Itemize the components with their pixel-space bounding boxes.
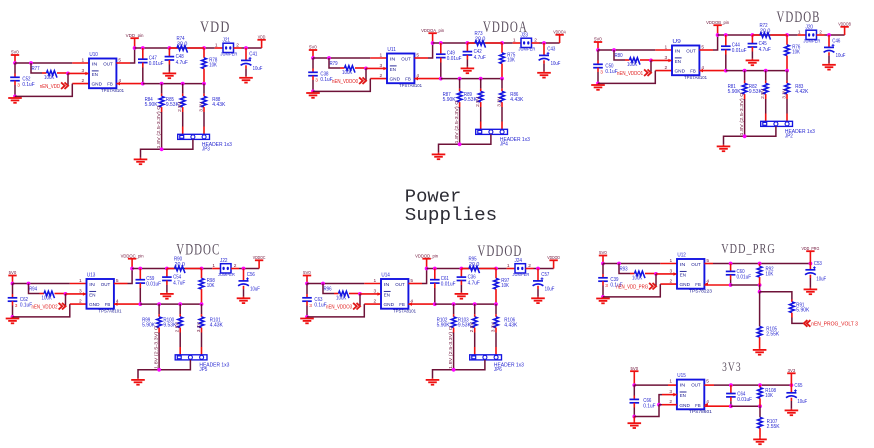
ground	[166, 292, 168, 294]
wire cap lead	[537, 286, 539, 289]
svg-text:3.3V: 3.3V	[497, 96, 502, 107]
wire cap lead	[730, 397, 732, 401]
regulator U13 TPS7A8101	[87, 279, 114, 309]
wire to R81	[744, 71, 746, 81]
wire jumper pin stub	[507, 268, 515, 270]
wire to FB rail	[725, 55, 727, 71]
wire cap lead	[730, 264, 732, 272]
svg-text:20.0: 20.0	[469, 262, 480, 268]
wire resistor lead	[201, 269, 203, 279]
junction	[242, 267, 246, 271]
regulator U10 TPS7A8101	[89, 59, 116, 89]
resistor R95 20.0	[469, 266, 480, 273]
wire to FB rail	[434, 288, 436, 304]
wire header to ground	[138, 360, 190, 378]
ground	[168, 72, 170, 74]
wire to ground	[312, 80, 314, 91]
junction	[458, 77, 462, 81]
wire cap lead	[537, 269, 539, 281]
wire EN pin stub	[68, 72, 89, 74]
resistor R94 100K	[44, 291, 55, 298]
svg-text:4: 4	[706, 399, 709, 405]
jumper J21	[223, 43, 234, 52]
wire jumper pin stub	[526, 268, 534, 270]
svg-text:IN: IN	[680, 383, 686, 389]
wire to ground	[543, 64, 545, 72]
ground	[460, 292, 462, 294]
resistor R77 100K	[47, 71, 58, 78]
ground	[245, 76, 247, 78]
svg-text:4.7uF: 4.7uF	[468, 280, 480, 286]
wire output rail	[433, 42, 513, 44]
wire cap lead	[139, 283, 141, 288]
regulator U11 TPS7A8101	[387, 54, 414, 84]
wire resistor lead	[640, 59, 651, 61]
svg-text:JP5: JP5	[199, 367, 207, 373]
capacitor C49 0.01uF	[436, 53, 446, 55]
off-page connector nEN_VDDO2	[59, 303, 63, 310]
wire resistor lead	[349, 293, 360, 295]
junction	[758, 262, 762, 266]
junction	[141, 46, 145, 50]
junction	[473, 302, 477, 306]
resistor R85 9.53K	[180, 96, 185, 107]
svg-text:OUT: OUT	[103, 61, 113, 67]
wire resistor lead	[158, 328, 160, 333]
wire FB pin stub	[114, 303, 140, 305]
wire header to ground	[433, 360, 485, 378]
wire resistor lead	[185, 268, 202, 270]
svg-text:JUMPER: JUMPER	[803, 38, 821, 43]
svg-text:U9: U9	[672, 39, 681, 45]
svg-text:1: 1	[798, 30, 801, 36]
wire cap lead	[725, 50, 727, 55]
wire cap lead	[602, 274, 604, 278]
svg-text:3: 3	[82, 68, 85, 74]
resistor R107 2.55K	[758, 417, 763, 428]
wire FB pin stub	[116, 83, 142, 85]
wire to output flag	[825, 34, 845, 36]
junction	[244, 46, 248, 50]
junction	[764, 69, 768, 73]
svg-text:5V0: 5V0	[594, 37, 602, 42]
wire EN pin stub	[662, 394, 677, 396]
svg-text:10K: 10K	[507, 58, 515, 64]
junction	[729, 283, 733, 287]
svg-text:U14: U14	[381, 272, 390, 278]
resistor R92 10K	[757, 266, 762, 277]
wire cap lead	[306, 294, 308, 298]
svg-text:3: 3	[670, 268, 673, 274]
wire header pin stub	[495, 347, 497, 355]
wire 3.3V column	[201, 333, 203, 348]
wire header pin stub	[474, 347, 476, 355]
resistor R76 10K	[785, 45, 790, 56]
resistor R82 9.53K	[763, 83, 768, 94]
wire cap lead	[166, 281, 168, 286]
wire resistor lead	[495, 314, 497, 317]
wire cap lead	[828, 52, 830, 55]
wire resistor lead	[786, 35, 788, 45]
wire 1.8V column	[744, 99, 746, 136]
wire resistor lead	[501, 102, 503, 107]
svg-text:OUT: OUT	[686, 48, 696, 54]
wire resistor lead	[453, 328, 455, 333]
wire 1.8V column	[459, 107, 461, 144]
svg-text:EN: EN	[89, 292, 96, 298]
wire to R103	[474, 304, 476, 314]
resistor R89 9.53K	[478, 91, 483, 102]
wire output rail	[427, 268, 507, 270]
svg-text:VDDOB: VDDOB	[777, 9, 821, 26]
wire cap lead	[828, 35, 830, 47]
wire to ground	[633, 408, 635, 417]
wire FB pin stub	[704, 284, 730, 286]
svg-text:30.0: 30.0	[177, 41, 188, 47]
svg-text:3: 3	[605, 283, 608, 289]
wire to C39	[602, 264, 604, 275]
off-page connector nEN_VDDO3	[353, 303, 357, 310]
svg-text:GND: GND	[390, 77, 401, 83]
junction	[809, 262, 813, 266]
svg-text:EN: EN	[680, 272, 687, 278]
junction	[617, 262, 621, 266]
wire GND return	[313, 79, 370, 92]
wire OUT riser	[428, 43, 433, 58]
svg-text:VDD: VDD	[258, 35, 266, 40]
svg-text:2.55K: 2.55K	[767, 424, 781, 430]
wire resistor lead	[744, 94, 746, 99]
svg-text:OUT: OUT	[101, 282, 111, 288]
wire cap lead	[730, 385, 732, 393]
wire output rail	[713, 263, 810, 265]
svg-text:3.3V: 3.3V	[491, 321, 496, 332]
svg-text:3.3V: 3.3V	[199, 101, 204, 112]
resistor R73 20.0	[475, 41, 486, 48]
svg-text:GND: GND	[384, 302, 395, 308]
svg-text:2.5V: 2.5V	[469, 321, 474, 332]
wire IN net	[603, 263, 660, 265]
wire cap lead	[597, 61, 599, 65]
wire resistor lead	[340, 67, 345, 69]
svg-text:TPS7A8101: TPS7A8101	[399, 83, 422, 88]
wire GND link	[659, 404, 662, 406]
wire FB rail	[731, 284, 760, 286]
wire to ground	[466, 60, 468, 67]
wire OUT pin stub	[704, 384, 714, 386]
wire resistor lead	[179, 314, 181, 317]
svg-text:1: 1	[380, 53, 383, 59]
wire resistor lead	[480, 89, 482, 92]
wire to C63	[306, 284, 308, 295]
wire cap lead	[597, 68, 599, 72]
svg-text:2: 2	[79, 298, 82, 304]
wire to ground	[537, 289, 539, 297]
wire cap lead	[790, 385, 792, 393]
junction	[13, 95, 17, 99]
wire to R105	[759, 292, 761, 326]
junction	[311, 90, 315, 94]
junction rail	[133, 46, 137, 50]
wire to FB rail	[730, 280, 732, 286]
wire GND return	[307, 304, 364, 317]
wire cap lead	[633, 403, 635, 408]
wire GND pin stub	[655, 70, 672, 72]
svg-text:C46: C46	[832, 39, 840, 45]
ground	[759, 438, 761, 440]
junction 5V0/VDD	[13, 61, 17, 65]
wire cap lead	[139, 269, 141, 280]
junction	[500, 41, 504, 45]
svg-text:10uF: 10uF	[250, 286, 260, 292]
capacitor C42 4.7uF	[463, 51, 473, 53]
off-page connector nEN_VDD	[61, 82, 65, 89]
junction	[724, 69, 728, 73]
svg-text:nEN_VDD_PRG: nEN_VDD_PRG	[616, 284, 648, 290]
wire to output flag	[534, 268, 554, 270]
svg-text:2: 2	[380, 73, 383, 79]
capacitor C59 0.01uF	[136, 279, 146, 281]
svg-text:FB: FB	[695, 282, 701, 288]
wire output rail	[135, 47, 215, 49]
svg-text:C53: C53	[814, 261, 822, 267]
wire IN pin stub	[370, 57, 387, 59]
svg-text:VDD_PRG: VDD_PRG	[721, 242, 776, 257]
wire resistor lead	[161, 94, 163, 97]
capacitor C45 4.7uF	[748, 43, 758, 45]
ground	[14, 96, 16, 98]
svg-text:R80: R80	[615, 53, 623, 59]
capacitor C52 0.1uF	[10, 76, 20, 78]
wire to ground	[460, 285, 462, 292]
svg-text:VDDOC: VDDOC	[176, 242, 220, 259]
svg-text:2: 2	[670, 278, 673, 284]
svg-text:10uF: 10uF	[545, 286, 555, 292]
svg-text:3: 3	[600, 70, 603, 76]
junction	[542, 41, 546, 45]
wire GND return	[634, 405, 659, 417]
svg-text:4.7uF: 4.7uF	[176, 60, 188, 66]
svg-text:4.43K: 4.43K	[210, 322, 224, 328]
wire resistor lead	[786, 81, 788, 84]
resistor R86 4.43K	[500, 91, 505, 102]
wire cap lead	[790, 398, 792, 401]
svg-text:TPS7A8101: TPS7A8101	[393, 308, 416, 313]
wire cap lead	[312, 69, 314, 73]
wire resistor lead	[474, 328, 476, 333]
svg-text:1.8V (2.5-3.3V) O: 1.8V (2.5-3.3V) O	[454, 100, 459, 143]
capacitor C41 10uF	[241, 59, 251, 61]
wire to off-page	[655, 274, 657, 286]
wire to R77	[31, 63, 42, 73]
wire cap lead	[434, 269, 436, 280]
ground	[602, 297, 604, 299]
wire resistor lead	[201, 289, 203, 304]
svg-text:IN: IN	[675, 48, 681, 54]
wire OUT pin stub	[699, 49, 713, 51]
wire cap lead	[751, 35, 753, 44]
junction	[657, 403, 661, 407]
wire FB rail	[726, 70, 787, 72]
junction	[202, 82, 206, 86]
wire jumper pin stub	[234, 47, 242, 49]
svg-text:1: 1	[374, 278, 377, 284]
wire OUT riser	[422, 269, 427, 284]
wire resistor lead	[203, 48, 205, 58]
wire to off-page	[65, 294, 67, 306]
svg-text:J20: J20	[806, 25, 814, 31]
wire cap lead	[243, 269, 245, 281]
wire EN pin stub	[656, 273, 677, 275]
off-page connector nEN_PROG_VOLT	[804, 320, 808, 327]
wire cap lead	[12, 294, 14, 298]
wire header pin stub	[182, 127, 184, 135]
ground	[633, 422, 635, 424]
junction	[729, 404, 733, 408]
svg-text:JUMPER: JUMPER	[220, 51, 238, 56]
svg-text:10uF: 10uF	[551, 61, 561, 67]
wire resistor lead	[495, 289, 497, 304]
svg-text:VDD_PRG: VDD_PRG	[801, 246, 819, 251]
wire OUT pin stub	[114, 283, 128, 285]
junction	[11, 315, 15, 319]
wire cap lead	[142, 48, 144, 59]
svg-text:1.8V (2.5-3.3V) O: 1.8V (2.5-3.3V) O	[156, 105, 161, 148]
wire resistor lead	[182, 94, 184, 97]
svg-text:TPS7A8101: TPS7A8101	[684, 75, 707, 80]
wire header pin stub	[501, 122, 503, 130]
resistor R74 30.0	[177, 46, 188, 53]
junction rail	[425, 267, 429, 271]
svg-text:100K: 100K	[632, 276, 643, 282]
junction EN node	[649, 59, 653, 63]
svg-text:JUMPER: JUMPER	[518, 46, 536, 51]
header JP5	[175, 355, 207, 360]
wire cap lead	[168, 48, 170, 57]
junction	[601, 295, 605, 299]
wire resistor lead	[759, 264, 761, 267]
wire FB pin stub	[704, 405, 731, 407]
junction EN node	[66, 72, 70, 76]
svg-text:1.8V (2.5-3.3V) O: 1.8V (2.5-3.3V) O	[153, 326, 158, 369]
capacitor C56 10uF	[239, 280, 249, 282]
wire resistor lead	[791, 300, 793, 302]
wire resistor lead	[57, 72, 68, 74]
header JP4	[476, 129, 508, 134]
wire to R85	[182, 84, 184, 94]
junction	[612, 48, 616, 52]
junction	[200, 302, 204, 306]
wire to R94	[29, 284, 40, 294]
junction	[305, 315, 309, 319]
wire resistor lead	[501, 89, 503, 92]
wire resistor lead	[771, 34, 788, 36]
junction	[157, 302, 161, 306]
wire to ground	[790, 401, 792, 409]
svg-text:J24: J24	[515, 258, 523, 264]
wire IN net	[598, 49, 655, 51]
svg-text:4.7uF: 4.7uF	[474, 55, 486, 61]
ground	[12, 317, 14, 319]
junction 5V0/VDDOB	[596, 48, 600, 52]
junction	[790, 383, 794, 387]
wire cap lead	[14, 74, 16, 78]
svg-text:0.01uF: 0.01uF	[146, 281, 161, 287]
junction	[433, 302, 437, 306]
wire 1.8V column	[453, 333, 455, 370]
wire to off-page	[365, 68, 367, 80]
junction	[160, 82, 164, 86]
wire resistor lead	[625, 59, 630, 61]
svg-text:0.1uF: 0.1uF	[320, 77, 332, 83]
wire OUT pin stub	[408, 283, 422, 285]
svg-text:1: 1	[670, 258, 673, 264]
wire resistor lead	[461, 268, 469, 270]
junction	[327, 56, 331, 60]
svg-text:1.8V (2.5-3.3V) O: 1.8V (2.5-3.3V) O	[739, 92, 744, 135]
wire IN pin stub	[660, 263, 677, 265]
wire FB rail	[140, 303, 201, 305]
junction	[181, 82, 185, 86]
wire resistor lead	[486, 42, 503, 44]
wire to FB rail	[730, 401, 732, 406]
wire cap lead	[543, 43, 545, 55]
svg-text:2.5V: 2.5V	[175, 321, 180, 332]
resistor R81 5.90K	[742, 83, 747, 94]
wire 2.5V column	[182, 112, 184, 127]
resistor R75 10K	[500, 53, 505, 64]
junction	[178, 302, 182, 306]
wire resistor lead	[355, 67, 366, 69]
wire to ground	[633, 417, 635, 422]
wire cap lead	[434, 283, 436, 288]
wire header pin stub	[179, 347, 181, 355]
wire IN pin stub	[655, 49, 672, 51]
svg-text:nEN_VDDO0: nEN_VDDO0	[332, 79, 358, 85]
wire to ground	[166, 285, 168, 292]
junction	[500, 77, 504, 81]
header JP2	[761, 121, 793, 126]
ground	[312, 91, 314, 93]
wire to R79	[329, 58, 340, 68]
svg-text:2: 2	[374, 298, 377, 304]
wire resistor lead	[765, 94, 767, 99]
wire cap lead	[142, 63, 144, 68]
svg-text:0.1uF: 0.1uF	[20, 302, 32, 308]
svg-text:0.01uF: 0.01uF	[447, 56, 462, 62]
ground	[466, 67, 468, 69]
junction	[29, 61, 33, 65]
svg-text:1: 1	[215, 43, 218, 49]
resistor R99 5.90K	[157, 317, 162, 328]
wire cap lead	[312, 76, 314, 80]
svg-text:U15: U15	[677, 373, 686, 379]
svg-text:GND: GND	[680, 282, 691, 288]
ground	[438, 153, 440, 155]
junction	[439, 41, 443, 45]
wire resistor lead	[203, 69, 205, 84]
junction	[452, 302, 456, 306]
wire header to ground	[439, 134, 491, 152]
svg-text:Power: Power	[405, 188, 462, 208]
svg-text:100K: 100K	[627, 62, 638, 68]
svg-text:nEN_VDD: nEN_VDD	[40, 84, 60, 90]
svg-text:5V0: 5V0	[303, 270, 311, 275]
capacitor C46 10uF	[824, 46, 834, 48]
junction	[785, 33, 789, 37]
resistor R90 20.0	[175, 266, 186, 273]
wire to off-page	[792, 318, 804, 324]
